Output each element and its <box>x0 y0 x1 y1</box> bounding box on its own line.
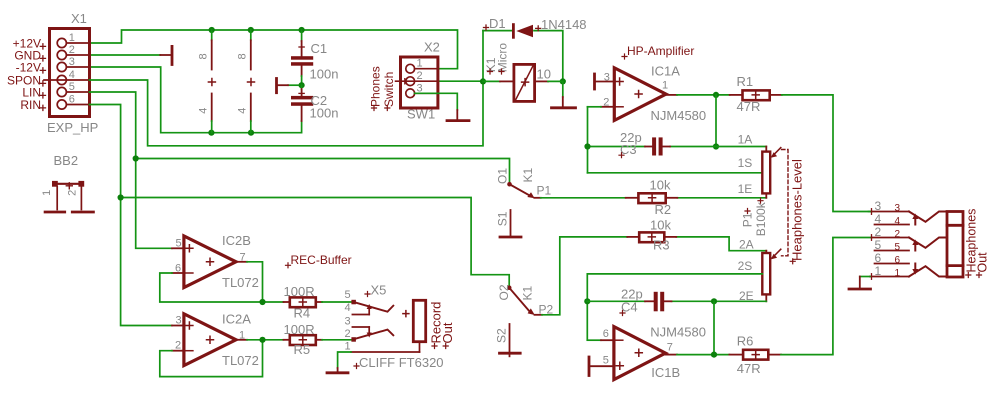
net label LIN <box>22 85 45 99</box>
svg-text:3: 3 <box>69 56 75 68</box>
resistor R4 100R <box>284 284 323 321</box>
svg-text:R6: R6 <box>737 334 754 349</box>
net label SPON <box>7 73 46 87</box>
svg-text:NJM4580: NJM4580 <box>650 324 706 339</box>
svg-text:1A: 1A <box>738 133 753 147</box>
label REC-Buffer <box>286 253 352 268</box>
svg-text:Phones: Phones <box>369 66 383 107</box>
resistor R1 47R <box>730 74 782 114</box>
jack pin 4 lead <box>875 224 910 226</box>
svg-text:2: 2 <box>175 340 181 352</box>
junction bottom rail at IC2P pin 4 <box>248 130 254 136</box>
svg-text:R1: R1 <box>737 74 754 89</box>
resistor R2 10k <box>626 178 678 218</box>
svg-text:Out: Out <box>975 252 989 273</box>
svg-text:D1: D1 <box>489 16 506 31</box>
wire -12V net <box>90 67 302 133</box>
wire R1 to headphone jack pin 3 <box>782 95 872 212</box>
svg-text:3: 3 <box>895 203 901 214</box>
svg-text:6: 6 <box>895 255 901 266</box>
jack ring contact group pins 2/5 <box>909 238 947 251</box>
potentiometer P1 B100k section 1 <box>738 133 781 198</box>
svg-text:Out: Out <box>440 322 455 343</box>
svg-text:47R: 47R <box>737 361 761 376</box>
svg-text:S2: S2 <box>494 328 508 343</box>
potentiometer gang dashed link <box>782 150 789 256</box>
jack pin 6 lead <box>875 263 910 265</box>
svg-text:R3: R3 <box>653 237 670 252</box>
svg-text:1S: 1S <box>738 156 753 170</box>
svg-text:Switch: Switch <box>382 72 396 107</box>
svg-text:2: 2 <box>69 44 75 56</box>
svg-text:5: 5 <box>875 238 882 252</box>
svg-text:C3: C3 <box>620 142 637 157</box>
svg-text:1: 1 <box>662 80 668 92</box>
svg-text:4: 4 <box>345 302 351 314</box>
svg-text:R2: R2 <box>655 202 672 217</box>
svg-text:Micro: Micro <box>496 43 510 73</box>
junction C4 left node <box>584 298 590 304</box>
wire IC1A pin2 feedback net <box>588 107 767 173</box>
svg-text:5: 5 <box>895 242 901 253</box>
svg-text:K1: K1 <box>521 167 535 182</box>
relay contact K1 O2/P2 <box>497 284 554 316</box>
svg-text:47R: 47R <box>737 99 761 114</box>
svg-text:TL072: TL072 <box>222 353 259 368</box>
svg-text:2: 2 <box>417 70 423 82</box>
svg-text:4: 4 <box>198 108 210 114</box>
op-amp IC1B NJM4580 <box>591 324 706 380</box>
jack pin 1 lead <box>870 274 909 280</box>
label Record Out rotated <box>428 302 455 349</box>
junction RIN branch <box>118 194 124 200</box>
svg-text:CLIFF FT6320: CLIFF FT6320 <box>359 355 444 370</box>
junction C1/C2 midpoint <box>299 82 305 88</box>
relay contact K1 O1/P1 <box>496 167 552 198</box>
svg-text:NJM4580: NJM4580 <box>651 108 707 123</box>
wire D1 anode to coil pin 10 <box>534 31 563 82</box>
svg-text:100n: 100n <box>310 106 339 121</box>
svg-text:6: 6 <box>175 263 181 275</box>
wire P1 to R2 to pot 1E <box>541 197 767 199</box>
svg-text:2S: 2S <box>738 259 753 273</box>
op-amp IC1A NJM4580 <box>596 64 706 123</box>
ground symbol at relay coil pin 10 <box>552 81 576 107</box>
svg-text:SW1: SW1 <box>407 107 435 122</box>
svg-text:K1: K1 <box>521 285 535 300</box>
power gate IC2P pins 8/4 <box>237 30 255 133</box>
bridge BB2 <box>41 153 94 212</box>
potentiometer P1 B100k section 2 <box>738 238 781 304</box>
svg-text:6: 6 <box>875 251 882 265</box>
svg-text:IC1B: IC1B <box>651 365 680 380</box>
svg-text:7: 7 <box>667 341 673 353</box>
wire IC1A output feedback vertical <box>715 95 717 147</box>
svg-text:BB2: BB2 <box>54 153 79 168</box>
connector X5 record out jack <box>345 283 444 370</box>
svg-text:IC2B: IC2B <box>222 233 251 248</box>
op-amp IC2B TL072 <box>172 233 259 290</box>
ground symbol at X5 pin 1 <box>327 368 348 373</box>
net label GND <box>14 48 45 62</box>
svg-text:10: 10 <box>537 67 551 82</box>
jack pin 2 lead <box>872 235 910 241</box>
ground symbol at IC1A pin 3 <box>593 74 596 89</box>
junction relay coil right <box>560 78 566 84</box>
resistor R6 47R <box>729 334 781 377</box>
ground symbol at IC1B pin 5 <box>588 357 591 376</box>
power gate IC1P pins 8/4 <box>198 30 216 133</box>
svg-text:8: 8 <box>237 53 249 59</box>
svg-text:IC2A: IC2A <box>222 312 251 327</box>
svg-text:1: 1 <box>345 341 351 353</box>
wire SPON net to relay coil <box>90 31 484 146</box>
svg-text:EXP_HP: EXP_HP <box>47 120 98 135</box>
svg-text:3: 3 <box>875 199 882 213</box>
svg-text:100n: 100n <box>310 67 339 82</box>
svg-text:2: 2 <box>603 96 609 108</box>
jack body <box>947 212 963 278</box>
resistor R3 10k <box>627 218 676 253</box>
svg-text:2: 2 <box>895 229 901 240</box>
wire R5 to X5 pin 2 <box>322 339 352 341</box>
svg-text:P1: P1 <box>537 184 552 198</box>
resistor R5 100R <box>284 322 323 357</box>
junction C3 right node <box>713 143 719 149</box>
wire headphone jack pin1 to ground <box>860 276 870 278</box>
svg-text:2: 2 <box>345 328 351 340</box>
svg-text:3: 3 <box>176 315 182 327</box>
svg-text:4: 4 <box>237 108 249 114</box>
svg-text:TL072: TL072 <box>222 275 259 290</box>
junction bottom rail at IC1P pin 4 <box>208 130 214 136</box>
jack sleeve contact group pins 6/1 <box>909 264 947 277</box>
wire C4 row <box>587 300 766 302</box>
ground symbol at C1/C2 midpoint <box>277 79 299 93</box>
svg-text:IC1A: IC1A <box>651 64 680 79</box>
svg-text:5: 5 <box>603 355 609 367</box>
junction top rail at C1 <box>299 27 305 33</box>
wire X2 pin2 to coil node <box>438 80 483 82</box>
svg-text:P1: P1 <box>741 212 755 227</box>
junction top rail at IC1P pin 8 <box>209 27 215 33</box>
capacitor C4 22p <box>620 287 672 316</box>
svg-text:1E: 1E <box>738 182 753 196</box>
svg-text:8: 8 <box>198 53 210 59</box>
op-amp IC2A TL072 <box>172 312 259 369</box>
connector X2 SW1 phones switch <box>396 40 440 122</box>
wire X2 pin3 to ground <box>415 93 458 110</box>
svg-text:6: 6 <box>603 328 609 340</box>
svg-text:HP-Amplifier: HP-Amplifier <box>627 44 694 58</box>
net label -12V <box>16 60 46 74</box>
svg-text:10k: 10k <box>650 178 671 193</box>
svg-text:RIN: RIN <box>20 98 41 112</box>
wire LIN net <box>90 92 510 248</box>
part name P1 rotated <box>741 209 755 228</box>
jack pin 3 lead <box>869 209 910 215</box>
junction IC1B output <box>711 352 717 358</box>
svg-text:X5: X5 <box>371 283 387 298</box>
ground symbol at X1 pin 2 <box>160 46 172 64</box>
svg-text:X2: X2 <box>424 40 440 55</box>
capacitor C1 100n <box>291 30 338 85</box>
svg-text:5: 5 <box>69 81 75 93</box>
svg-text:REC-Buffer: REC-Buffer <box>291 253 352 267</box>
svg-text:1: 1 <box>895 268 901 279</box>
headphone jack connector <box>869 199 964 279</box>
svg-text:X1: X1 <box>71 11 87 26</box>
junction IC2A output node <box>259 337 265 343</box>
junction IC1A output <box>713 92 719 98</box>
wire pot 2S to C4 node <box>587 274 762 340</box>
svg-text:1: 1 <box>41 190 53 196</box>
svg-text:6: 6 <box>69 94 75 106</box>
wire R4 to X5 pin 5 <box>322 301 352 303</box>
junction C3 left node <box>584 143 590 149</box>
svg-text:C4: C4 <box>621 300 638 315</box>
label Heaphones Out rotated <box>964 209 989 278</box>
svg-text:1: 1 <box>69 32 75 44</box>
wire IC2B output and feedback <box>160 262 284 302</box>
net label RIN <box>20 98 45 112</box>
wire P2 to R3 to pot 2A <box>542 237 766 315</box>
connector X1 EXP_HP <box>44 11 98 135</box>
junction relay coil left <box>480 78 486 84</box>
svg-text:3: 3 <box>345 316 351 328</box>
jack pad numbers maroon <box>895 203 901 279</box>
svg-text:S1: S1 <box>495 211 509 226</box>
junction IC2B output node <box>259 299 265 305</box>
wire IC1B output to R6 <box>666 354 730 356</box>
ground symbol at X2 pin 3 <box>447 110 469 121</box>
relay contact terminal S2 <box>494 324 520 356</box>
svg-text:10k: 10k <box>650 218 671 233</box>
wire RIN net <box>90 105 510 326</box>
svg-text:4: 4 <box>875 212 882 226</box>
capacitor C2 100n <box>291 85 338 121</box>
jack pin 5 lead <box>875 250 910 252</box>
svg-text:Heaphones-Level: Heaphones-Level <box>789 159 804 261</box>
label Phones Switch <box>369 66 396 110</box>
svg-text:100R: 100R <box>284 284 315 299</box>
svg-text:2A: 2A <box>739 238 754 252</box>
diode D1 1N4148 <box>483 16 587 38</box>
svg-text:R5: R5 <box>294 342 311 357</box>
wire IC2A output and feedback <box>160 340 284 377</box>
svg-text:-12V: -12V <box>16 60 41 74</box>
wire R6 to headphone jack pin 2 <box>781 238 872 355</box>
svg-text:B100k: B100k <box>754 201 768 236</box>
svg-text:R4: R4 <box>294 306 311 321</box>
wire IC1B pin 6 <box>587 339 601 341</box>
svg-text:5: 5 <box>176 237 182 249</box>
wire C4 right to IC1B output <box>713 301 715 354</box>
wire X5 pin1 to ground <box>338 352 351 368</box>
svg-text:O2: O2 <box>497 284 511 300</box>
jack tip contact group pins 3/4 <box>909 212 947 225</box>
svg-text:5: 5 <box>345 289 351 301</box>
svg-text:3: 3 <box>604 71 610 83</box>
capacitor C3 22p <box>619 130 670 158</box>
svg-text:4: 4 <box>895 216 901 227</box>
svg-text:C1: C1 <box>311 41 328 56</box>
junction top rail at IC2P pin 8 <box>248 27 254 33</box>
part value B100k rotated <box>754 198 768 236</box>
ground symbol at headphone jack pin 1 <box>849 277 871 290</box>
svg-text:1: 1 <box>875 264 882 278</box>
svg-text:2: 2 <box>67 190 79 196</box>
wire +12V net <box>90 30 458 69</box>
svg-text:1: 1 <box>417 58 423 70</box>
junction LIN branch <box>133 155 139 161</box>
junction C4 right node <box>711 298 717 304</box>
relay coil K1 Micro <box>483 43 563 102</box>
wire GND stub from X1 pin 2 <box>90 54 161 56</box>
svg-text:2: 2 <box>875 225 882 239</box>
relay contact terminal S1 <box>495 210 521 237</box>
svg-text:4: 4 <box>69 69 75 81</box>
svg-text:1N4148: 1N4148 <box>541 17 587 32</box>
label HP-Amplifier <box>622 44 694 59</box>
wire IC1A output to R1 <box>666 94 730 96</box>
svg-text:O1: O1 <box>496 168 510 184</box>
svg-text:100R: 100R <box>284 322 315 337</box>
net label +12V <box>13 36 46 50</box>
label Heaphones-Level rotated <box>789 159 804 264</box>
